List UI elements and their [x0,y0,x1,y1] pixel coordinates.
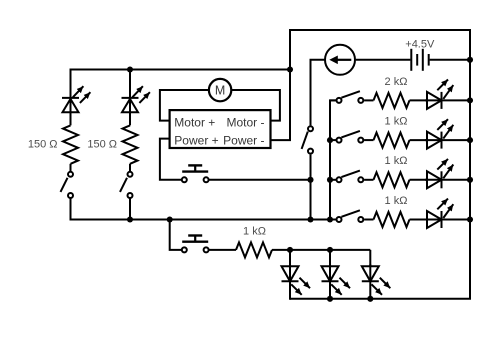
junction: bottom branch3 bottom [367,296,373,302]
resistor R2 150ohm [123,125,138,163]
resistor R7 1kohm [236,242,272,257]
svg-text:150 Ω: 150 Ω [87,139,117,151]
LED D8 (bottom) [322,266,339,281]
current source / meter U2 (circle with left arrow) [325,45,355,75]
svg-text:150 Ω: 150 Ω [28,139,58,151]
switch SW4 (row1) [337,98,342,103]
junction: PB1 wire at SW3 vertical [307,177,313,183]
switch SW6 (row3) [337,177,342,182]
svg-text:Motor -: Motor - [226,115,264,129]
wire: SW3 to bottom wire [310,155,312,220]
switch SW5 (row2) [337,138,342,143]
resistor R4 1 kΩ [374,133,410,148]
wire: current source left lead to switch SW3 [311,60,325,126]
junction: bottom button branch [167,216,173,222]
LED D9 light arrows [380,278,391,289]
junction: branch 2 bottom [127,216,133,222]
LED D6 light arrows [437,199,448,210]
resistor R3 2 kΩ [374,93,410,108]
junction: rail row2 [327,137,333,143]
svg-text:Power -: Power - [223,133,264,147]
svg-text:Power +: Power + [174,133,218,147]
LED D3 light arrows [437,80,448,91]
svg-text:Motor +: Motor + [174,115,215,129]
wire: Motor- lead (right of M) [230,90,280,121]
junction: row4 at right rail [467,216,473,222]
LED D3 (row1) [427,92,442,109]
junction: branch 2 top [127,66,133,72]
junction: bottom branch2 bottom [327,296,333,302]
wire: branch2 vertical [129,70,131,221]
wire: row feed rail [330,100,337,219]
junction: row3 at right rail [467,177,473,183]
LED D5 (row3) [427,171,442,188]
LED D4 (row2) [427,132,442,149]
wire: row4 segments [330,219,337,221]
junction: left-circuit top wire meets Power- vertical [287,66,293,72]
resistor R5 1 kΩ [374,172,410,187]
switch SW7 (row4) [337,217,342,222]
wire: PB2 to resistor R7 [209,249,236,251]
resistor R1 150ohm [63,125,78,163]
junction: SW3 vertical at bottom wire [307,216,313,222]
svg-text:+4.5V: +4.5V [405,38,435,50]
LED D1 light arrows [73,86,84,97]
LED D1 (photo-LED branch1) [63,99,79,112]
pushbutton PB2 (bottom LEDs) [182,247,187,252]
battery B1 +4.5V [356,59,411,61]
LED D7 (bottom) [282,266,299,281]
LED D4 light arrows [437,119,448,130]
wire: branch1 vertical [70,164,72,172]
switch SW2 [128,172,133,177]
LED D8 light arrows [340,278,351,289]
wire: bottom branch1 vertical [289,250,291,300]
svg-text:1 kΩ: 1 kΩ [385,116,408,128]
LED D6 (row4) [427,211,442,228]
LED D2 light arrows [132,86,143,97]
svg-text:1 kΩ: 1 kΩ [385,195,408,207]
wire: bottom branch down from left bottom wire [170,220,182,250]
LED D9 (bottom) [362,266,379,281]
wire: row3 segments [330,179,337,181]
wire: bottom branch2 vertical [329,250,331,300]
junction: rail row3 [327,177,333,183]
wire: PB1 to SW3 vertical [209,179,311,181]
wire: left circuit top wire [71,70,291,126]
svg-text:1 kΩ: 1 kΩ [385,155,408,167]
junction: row1 at right rail [467,97,473,103]
svg-text:M: M [215,84,225,98]
wire: row2 segments [330,139,337,141]
LED D2 (photo-LED branch2) [122,99,138,112]
junction: battery to right rail [467,57,473,63]
junction: bottom branch1 top [287,247,293,253]
junction: rail x330 at bottom wire [327,216,333,222]
pushbutton PB1 (motor power) [182,177,187,182]
wire: left circuit bottom wire (row 4 line) [71,198,336,220]
wire: Motor+ lead (left of M) [160,90,210,121]
resistor R6 1 kΩ [374,212,410,227]
wire: outer loop (top rail, right rail, bottom return) [272,30,471,299]
junction: bottom branch2 top [327,247,333,253]
LED D5 light arrows [437,159,448,170]
wire: R7 to bottom LED branches [272,249,370,251]
svg-text:2 kΩ: 2 kΩ [385,76,408,88]
svg-text:1 kΩ: 1 kΩ [243,226,266,238]
wire: bottom branch3 vertical [369,250,371,300]
motor M1 (circle M) [209,79,231,101]
motor driver box U1 [170,110,271,148]
wire: Power+ lead to pushbutton PB1 [160,139,181,180]
switch SW1 [68,172,73,177]
LED D7 light arrows [300,278,311,289]
wire: row1 segments [330,99,337,101]
junction: row2 at right rail [467,137,473,143]
switch SW3 (vertical) [308,126,313,131]
